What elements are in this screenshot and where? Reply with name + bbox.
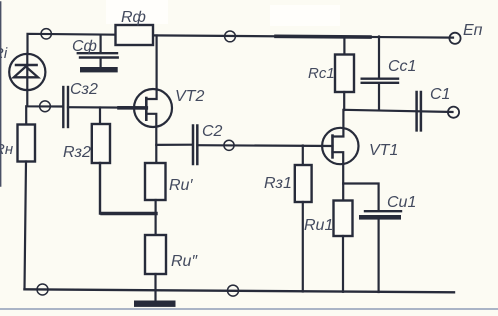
capacitor Cu1 [365, 210, 401, 212]
ground bar under Cf [80, 67, 118, 72]
terminal C1 out [448, 107, 459, 118]
wire: Ru' to Ru'' [155, 200, 157, 235]
wire: photodiode to Cz2 [27, 90, 62, 107]
photodiode VD [9, 54, 45, 90]
svg-text:Rі: Rі [0, 45, 8, 62]
wire: Cz2 to VT2 gate [68, 106, 146, 109]
white patch top [270, 5, 340, 26]
resistor Rz1 [302, 146, 304, 166]
wire: VT1 source branch to Cu1 [343, 184, 378, 211]
svg-text:Сз2: Сз2 [70, 81, 98, 98]
junction circle A top rail [41, 29, 51, 39]
svg-text:Сс1: Сс1 [388, 58, 416, 75]
resistor Rf [116, 25, 154, 45]
svg-text:Еп: Еп [463, 22, 483, 39]
capacitor Cz2 [63, 87, 68, 127]
left scan edge artifact [0, 2, 2, 186]
svg-text:Ru″: Ru″ [171, 253, 198, 270]
capacitor Cc1 [378, 37, 380, 78]
wire: Rz1 to bottom rail [302, 202, 304, 292]
resistor Rn [25, 106, 27, 124]
wire: Rn to bottom rail [25, 162, 27, 290]
resistor Ru' [145, 163, 166, 200]
wire: VT2 source to C2 [156, 144, 192, 146]
wire: Ru1 to bottom rail [342, 236, 344, 292]
capacitor C2 [193, 126, 197, 165]
svg-text:Rз2: Rз2 [63, 144, 91, 161]
svg-text:Rн: Rн [0, 141, 13, 158]
svg-text:VT1: VT1 [369, 142, 398, 159]
wire: Ru'' to ground [154, 274, 156, 301]
junction circle E [224, 140, 234, 150]
wire: photodiode top to rail [28, 34, 116, 54]
svg-text:Ru′: Ru′ [169, 177, 193, 194]
wire: Cf stub from rail [99, 35, 101, 53]
transistor VT2 [134, 36, 172, 164]
bottom scan blue line [0, 308, 498, 310]
wire: Rz2 bottom to divider junction [100, 163, 156, 214]
svg-text:С1: С1 [430, 86, 450, 103]
resistor Rz2 [99, 108, 101, 125]
wire: Cu1 to bottom rail [378, 219, 380, 292]
svg-text:С2: С2 [202, 123, 223, 140]
junction circle D [40, 101, 51, 112]
resistor Ru1 [334, 201, 353, 237]
junction circle H bottom rail [228, 285, 239, 296]
wire: top rail right of Rf to En terminal [153, 35, 453, 37]
wire: Cf to ground bar [99, 59, 101, 68]
junction circle G bottom rail [37, 284, 48, 295]
svg-text:Rз1: Rз1 [264, 175, 292, 192]
svg-text:Сф: Сф [72, 38, 97, 55]
capacitor C1 [417, 92, 421, 130]
capacitor Cf [78, 53, 118, 57]
wire: bold gate segment [119, 106, 146, 110]
transistor VT1 [322, 110, 358, 201]
bold overlay on link [102, 212, 156, 215]
wire: C2 to VT1 gate [197, 144, 332, 147]
svg-text:VT2: VT2 [175, 88, 204, 105]
resistor Rc1 [343, 37, 345, 55]
wire: Rc1 bottom to drain node [343, 92, 345, 110]
svg-text:Cu1: Cu1 [387, 194, 416, 211]
junction circle B top rail [225, 31, 236, 42]
wire: bold overlay on top rail [276, 34, 370, 38]
bottom rail [25, 289, 455, 292]
svg-text:Rф: Rф [121, 9, 146, 26]
svg-text:Ru1: Ru1 [304, 217, 333, 234]
ground bar bottom [134, 301, 176, 307]
terminal En [449, 33, 460, 44]
svg-text:Rc1: Rc1 [308, 65, 335, 82]
wire: drain line to C1 and terminal [344, 110, 453, 112]
resistor Ru'' [145, 235, 166, 274]
